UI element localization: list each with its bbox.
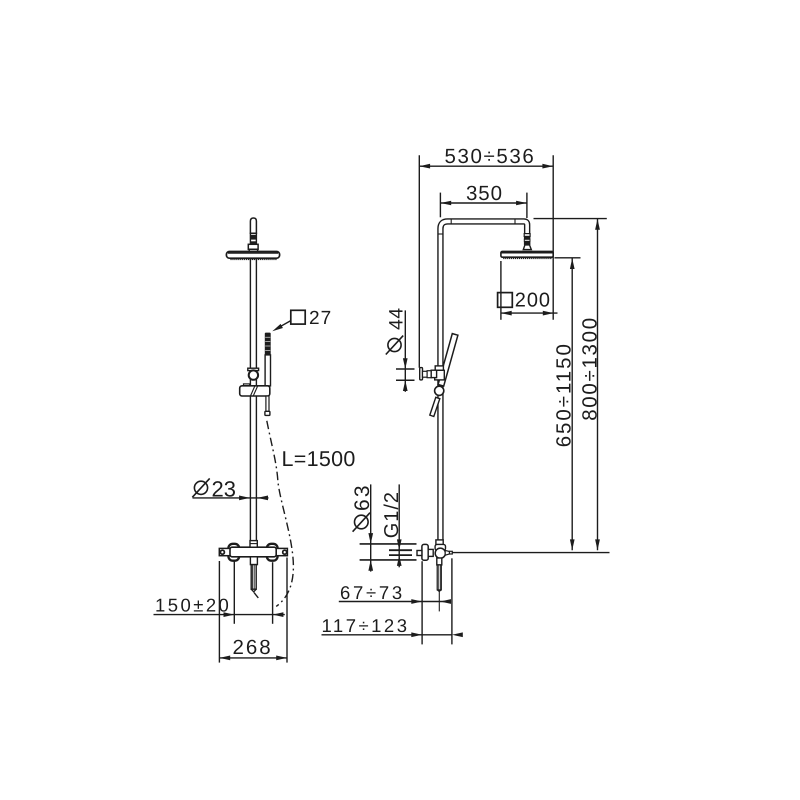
shower head nozzles (side view) — [503, 257, 551, 259]
dimension square 200 (head size) — [498, 261, 558, 320]
overhead shower disc (front view) — [226, 252, 279, 259]
valve knob (side view, toward wall) — [417, 544, 433, 560]
dimension 800÷1300 — [534, 219, 607, 551]
valve tail below (side view) — [437, 558, 442, 611]
dimension 650÷1150 — [552, 258, 580, 550]
svg-text:117÷123: 117÷123 — [322, 615, 410, 636]
svg-text:800÷1300: 800÷1300 — [579, 316, 602, 421]
hand shower handle (dark) — [265, 333, 271, 355]
svg-text:650÷1150: 650÷1150 — [552, 342, 575, 447]
hand shower tail below holder — [265, 396, 270, 415]
riser pipe and shower arm (side view) — [438, 219, 528, 540]
wall baseline (side view) — [452, 553, 610, 645]
shower holder bracket — [240, 384, 270, 396]
svg-text:350: 350 — [466, 182, 503, 205]
hand shower resting in holder (side view) — [438, 334, 458, 387]
svg-text:67÷73: 67÷73 — [340, 582, 405, 603]
thermostatic valve (front view): knobs — [228, 544, 277, 561]
dimension 150±20 — [154, 561, 285, 624]
handle swivel dark bands — [251, 235, 256, 244]
head collar — [248, 244, 258, 251]
hose dash-dot curve L=1500 — [254, 421, 293, 607]
wall connection lines (thread/union) — [360, 544, 417, 560]
top handle rod — [250, 218, 256, 245]
dimension 530÷536 — [419, 145, 553, 368]
valve side unions — [219, 548, 287, 555]
hand shower wand body — [265, 355, 270, 386]
svg-text:530÷536: 530÷536 — [445, 145, 536, 168]
leader arrow to hand shower — [272, 321, 291, 332]
valve (side view) — [435, 540, 452, 558]
dimension 117÷123 — [322, 615, 463, 637]
ball joint — [249, 370, 258, 379]
riser pole (front view) — [250, 259, 256, 542]
holder ball joint — [435, 386, 444, 395]
hand shower tail (side view) — [430, 397, 440, 416]
dimension 268 — [219, 558, 287, 663]
dimension G1/2 (thread) — [381, 484, 403, 567]
dimension Ø23 (pole diameter) — [192, 477, 268, 502]
arm swivel joint to head — [523, 234, 531, 250]
wall-bracket ball joint collar — [248, 368, 259, 370]
valve body — [230, 547, 276, 557]
svg-text:27: 27 — [309, 308, 332, 329]
dimension Ø44 (hand shower) — [385, 308, 414, 392]
shower disc nozzles (front view) — [230, 258, 276, 260]
pole-to-valve collar — [250, 541, 257, 548]
svg-text:L=1500: L=1500 — [282, 447, 356, 471]
label square 27 — [291, 308, 332, 329]
hose length text L=1500 — [282, 447, 356, 471]
dimension 350 — [440, 182, 527, 218]
svg-text:200: 200 — [515, 290, 551, 312]
dimension 67÷73 — [339, 561, 451, 644]
svg-text:268: 268 — [233, 636, 273, 659]
svg-text:44: 44 — [385, 308, 407, 331]
overhead shower head (side view) — [501, 251, 553, 257]
dimension Ø63 (wall flange) — [351, 483, 374, 571]
spout below valve — [250, 557, 257, 592]
holder knob — [420, 368, 437, 380]
holder clamp on pipe — [435, 366, 445, 380]
